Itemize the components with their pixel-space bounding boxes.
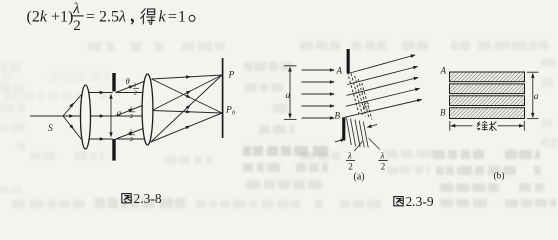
svg-text:λ: λ (380, 151, 385, 161)
hatched band 3 (450, 96, 525, 106)
svg-text:C: C (363, 102, 370, 112)
svg-text:λ: λ (347, 151, 352, 161)
slit barrier top (112, 73, 115, 91)
svg-text:λ: λ (133, 82, 137, 89)
ray slit to lens2 top horizontal (116, 92, 143, 94)
svg-text:A: A (440, 66, 447, 76)
tilted ray bottom (116, 128, 144, 139)
screen (222, 58, 224, 138)
slit-length arrow with ticks (450, 121, 525, 131)
lambda/2 label left with leader (346, 142, 362, 172)
svg-text:a: a (534, 92, 539, 102)
svg-text:2.3-9: 2.3-9 (406, 194, 434, 209)
svg-text:2: 2 (134, 90, 137, 97)
lens L1 (81, 85, 91, 149)
fullwidth comma (131, 18, 134, 24)
hatched band 1 (450, 72, 525, 82)
ray E3 to P (151, 75, 222, 142)
tilted ray middle (116, 105, 144, 116)
svg-text:A: A (336, 66, 343, 76)
wavefront dashed lines (347, 72, 372, 120)
formula line: (2k+1)lambda/2 = 2.5lambda , de k = 1 . (27, 1, 196, 34)
svg-text:2: 2 (130, 136, 133, 143)
ray E2 to P (152, 75, 222, 111)
ray E1 to P0 (152, 79, 223, 113)
svg-text:(2k +1): (2k +1) (27, 8, 74, 25)
lens L2 (142, 74, 153, 145)
hanzi CHANG (length) drawn (489, 121, 497, 130)
svg-text:P: P (228, 71, 235, 81)
wavefront solid continuations below ray B (346, 118, 368, 148)
caption fig 2.3-8: hanzi TU (drawn) + number (122, 194, 131, 203)
svg-text:a: a (286, 91, 291, 101)
ray E1 to P (152, 75, 223, 79)
svg-text:(b): (b) (494, 171, 505, 182)
hanzi FENG (slit) drawn (477, 122, 488, 131)
svg-text:a: a (117, 109, 122, 119)
svg-text:2: 2 (381, 162, 386, 172)
svg-text:2: 2 (73, 18, 81, 34)
flank arrow left (335, 140, 343, 142)
slit barrier bottom (112, 139, 115, 161)
svg-text:(a): (a) (354, 172, 365, 183)
flank arrow right (370, 124, 377, 126)
svg-text:k: k (159, 8, 167, 25)
lambda/2 label right with leader (369, 138, 388, 171)
slit barrier bottom (fig a) (342, 117, 345, 140)
ray E2 to P0 (152, 111, 222, 114)
svg-text:=: = (168, 8, 177, 25)
lambda/2 fraction top (133, 82, 140, 97)
lambda/2 fraction middle (129, 106, 136, 121)
svg-text:θ: θ (126, 76, 130, 86)
ray slit to lens2 bottom horizontal (116, 138, 145, 140)
incident plane-wave rays (302, 70, 334, 118)
diffracted rays (345, 55, 422, 117)
ray S to lens bottom (63, 116, 82, 140)
svg-text:2.3-8: 2.3-8 (134, 191, 162, 206)
slit width arrow a (109, 94, 113, 138)
aperture width arrow a with end ticks (284, 66, 297, 120)
hatched band 4 (450, 108, 525, 119)
hatched band 2 (450, 84, 525, 94)
arrowheads fig 2.3-8 (69, 75, 192, 141)
slit barrier top (fig a) (347, 49, 350, 74)
svg-text:2: 2 (348, 162, 353, 172)
ray E3 to P0 (151, 113, 222, 142)
lambda/2 fraction bottom (129, 129, 136, 144)
bleed-through texture (back of page) (0, 41, 557, 208)
tilted ray top (116, 82, 144, 93)
svg-text:S: S (48, 124, 53, 134)
svg-text:= 2.5λ: = 2.5λ (86, 8, 126, 25)
hanzi DE (drawn) (140, 8, 155, 24)
svg-text:1: 1 (178, 8, 186, 25)
svg-text:B: B (335, 111, 341, 121)
ray S to lens top (63, 94, 82, 116)
ray lens1 to slit bottom (89, 138, 113, 140)
svg-text:2: 2 (130, 113, 133, 120)
fullwidth period (189, 15, 195, 21)
svg-text:λ: λ (72, 1, 80, 17)
ray lens1 to slit top (89, 92, 113, 94)
optical axis (30, 115, 142, 117)
caption fig 2.3-9: hanzi TU (drawn) + number (394, 197, 403, 206)
svg-text:λ: λ (129, 106, 133, 113)
height arrow a with ticks (fig b) (527, 72, 539, 118)
svg-text:B: B (440, 108, 446, 118)
